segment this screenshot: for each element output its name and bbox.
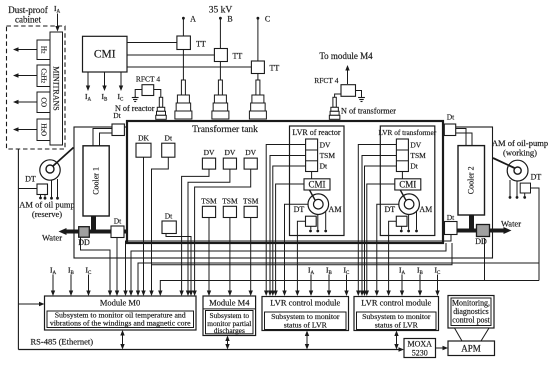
MINITRANS unit [50, 32, 63, 145]
wire TSM1 to M4 [207, 218, 211, 297]
oil pump AM (working) [493, 158, 528, 181]
svg-text:LVR control module: LVR control module [361, 298, 431, 308]
sensor DK [136, 134, 151, 158]
sensor Dt (cooler1 top) [112, 111, 124, 136]
wire cells to CMI [311, 172, 313, 179]
svg-text:TSM: TSM [410, 151, 426, 160]
svg-text:Dt: Dt [165, 134, 173, 143]
svg-text:CMI: CMI [308, 180, 325, 190]
svg-text:CO: CO [40, 97, 48, 107]
wire phase C [257, 20, 259, 81]
svg-text:DV: DV [224, 148, 235, 157]
wire RFCT to ground [135, 90, 142, 97]
monitoring diagnostics control post [448, 296, 494, 329]
transformer tank [127, 121, 443, 243]
AM of oil pump label [19, 200, 75, 220]
bus link LVR1 [305, 331, 309, 350]
CMI U1 (monitor of currents) [83, 36, 128, 72]
svg-text:Module M4: Module M4 [209, 297, 250, 307]
sensor DT box [306, 216, 317, 226]
sensor Dt (mid) [162, 212, 176, 234]
svg-text:Dt: Dt [165, 212, 173, 221]
svg-text:DK: DK [138, 134, 149, 143]
wire cooler2 to Dt [456, 129, 466, 146]
svg-text:LVR of transformer: LVR of transformer [378, 128, 436, 137]
svg-text:Dt: Dt [447, 113, 455, 122]
module M0 subsystem box [47, 311, 194, 328]
svg-text:DD: DD [475, 237, 487, 246]
phase A node [182, 15, 196, 24]
CMI output current arrow IA [86, 72, 90, 91]
svg-text:Water: Water [42, 233, 62, 243]
svg-text:DD: DD [78, 238, 90, 247]
LVR control module 2 [354, 297, 439, 331]
svg-text:N of reactor: N of reactor [115, 104, 155, 113]
current arrow IC [435, 275, 439, 297]
svg-text:TSM: TSM [320, 151, 336, 160]
svg-text:status of LVR: status of LVR [375, 320, 419, 329]
wires to dots [400, 212, 418, 233]
svg-text:RFCT 4: RFCT 4 [314, 76, 338, 85]
pipe cooler2 down [469, 215, 474, 231]
phase B node [219, 15, 233, 24]
wire CMI to TT2 [127, 54, 215, 56]
sensor Dt (top) [162, 134, 175, 158]
svg-text:TSM: TSM [222, 196, 238, 205]
wire Dt to M0 [149, 157, 168, 296]
bus link M0 [120, 330, 124, 350]
wire cooler1 to Dt [93, 129, 112, 146]
sensor TSM2 [222, 196, 238, 217]
gas cell C2H2 [37, 65, 50, 87]
wire pump sensors (working) [509, 180, 526, 199]
wire LVR DT out [295, 221, 305, 296]
LVR drive motor AM [308, 190, 329, 215]
current arrow IC [86, 275, 90, 297]
current transformer TT phase B [214, 49, 242, 62]
water outlet arrow (left) [59, 228, 67, 235]
svg-text:Dust-proof: Dust-proof [8, 5, 48, 15]
water outlet arrow (right) [504, 227, 512, 234]
wire TSM2 to M4 [228, 218, 232, 297]
wire LVR CMI out [365, 184, 395, 296]
wire C2H2 cell output [13, 73, 37, 77]
svg-text:Transformer tank: Transformer tank [192, 124, 258, 135]
svg-text:TT: TT [270, 64, 280, 73]
wire DV2 to M0 [186, 169, 230, 296]
svg-text:AM of oil-pump: AM of oil-pump [492, 138, 548, 148]
svg-text:DV: DV [410, 141, 421, 150]
flow sensor DD (left) [78, 227, 90, 247]
svg-text:A: A [190, 15, 196, 24]
wire LVR DT out [386, 221, 396, 296]
svg-text:(working): (working) [503, 148, 537, 158]
pipe cooler1 down [91, 216, 96, 232]
svg-text:DT: DT [531, 173, 542, 182]
pipe water left [64, 230, 128, 234]
svg-text:Cooler 2: Cooler 2 [467, 166, 476, 194]
wire RFCT to bushing [154, 90, 161, 98]
RS-485 bus [18, 347, 404, 351]
oil/cooling assembly enclosure [74, 127, 493, 258]
gas cell CO [37, 92, 50, 113]
wire sensor run A to M0 [129, 243, 446, 296]
svg-text:CMI: CMI [94, 49, 116, 61]
svg-text:TSM: TSM [201, 196, 217, 205]
svg-text:(reserve): (reserve) [32, 209, 62, 219]
wire H2O cell output [13, 127, 37, 131]
wire Ia into MINITRANS [55, 14, 59, 32]
wire phase A [182, 20, 184, 81]
phase C node [257, 15, 271, 24]
bushing phase A [175, 80, 192, 119]
wire DK to M0 [141, 157, 145, 296]
svg-text:Module M0: Module M0 [100, 297, 140, 307]
CMI output current arrow IB [102, 72, 106, 91]
svg-text:Dt: Dt [320, 162, 328, 171]
svg-text:TT: TT [196, 40, 206, 49]
gas cell H2O [37, 119, 50, 141]
current transformer TT phase C [251, 61, 279, 74]
svg-text:cabinet: cabinet [15, 15, 41, 25]
wire y280 extension [485, 263, 540, 281]
bushing N of reactor [156, 97, 167, 119]
wire MOXA to APM [436, 346, 449, 350]
svg-text:APM: APM [461, 344, 481, 354]
svg-text:TT: TT [233, 52, 243, 61]
AM of oil-pump working label [492, 138, 548, 158]
wire TSM3 to M4 [249, 218, 253, 297]
svg-text:LVR of reactor: LVR of reactor [292, 128, 340, 137]
svg-text:AM: AM [329, 205, 342, 214]
cooler 2 [458, 146, 485, 215]
svg-text:Cooler 1: Cooler 1 [92, 167, 101, 195]
wire CMI to TT1 [127, 42, 177, 44]
module M4 [203, 296, 256, 336]
svg-text:DT: DT [384, 205, 395, 214]
current arrow IB [327, 275, 331, 297]
wire LVR cell out [356, 145, 396, 297]
wire LVR motor out [375, 204, 399, 296]
svg-text:DV: DV [245, 148, 256, 157]
arrow to module M4 [345, 65, 349, 84]
svg-text:TSM: TSM [243, 196, 259, 205]
wire DD-left to M0 [81, 237, 113, 296]
wire LVR CMI out [273, 184, 304, 296]
svg-text:RFCT 4: RFCT 4 [136, 75, 160, 84]
svg-text:LVR control module: LVR control module [270, 298, 340, 308]
current arrow IB [418, 275, 422, 297]
ground (reactor RFCT) [132, 96, 139, 102]
svg-text:Dt: Dt [113, 111, 121, 120]
svg-text:DV: DV [320, 141, 331, 150]
svg-text:RS-485 (Ethernet): RS-485 (Ethernet) [31, 337, 94, 347]
sensor Dt (pipe right) [445, 213, 458, 235]
wires to dots [309, 212, 327, 233]
wire LVR cell out [360, 156, 397, 297]
sensor DV2 [223, 148, 236, 169]
sensor TSM3 [243, 196, 259, 217]
current arrow IA [51, 275, 55, 297]
svg-text:C: C [265, 15, 270, 24]
bus link M4 [225, 336, 229, 350]
bushing phase B [212, 80, 229, 119]
wire CMI to TT3 [127, 66, 251, 68]
current arrow IA [309, 275, 313, 297]
sensor Dt (pipe left) [111, 217, 124, 238]
wire DD-right to M0 [158, 238, 484, 296]
svg-text:DT: DT [25, 175, 36, 184]
bus link LVR2 [394, 331, 398, 350]
wire DV3 to M0 [192, 169, 250, 296]
wire sensor run B join [152, 243, 453, 265]
current arrow IA [400, 275, 404, 297]
LVR control module 1 subsystem box [265, 312, 347, 330]
svg-text:Dt: Dt [114, 217, 122, 226]
wire DV1 to M0 [179, 169, 209, 296]
svg-text:AM of oil pump: AM of oil pump [19, 200, 75, 210]
CMI output current arrow IC [119, 72, 123, 91]
svg-text:control post: control post [452, 316, 490, 325]
svg-text:discharges: discharges [214, 326, 245, 335]
bushing phase C [249, 80, 266, 119]
wire cooler1 to Dt 2 [100, 133, 113, 146]
CMI of LVR [304, 179, 330, 190]
svg-text:N of transformer: N of transformer [341, 107, 396, 116]
wire cells to CMI [401, 172, 403, 179]
svg-text:To module M4: To module M4 [319, 51, 373, 61]
sensor DT box (reserve pump) [37, 184, 48, 195]
wire DT reserve to left line [18, 188, 37, 190]
LVR control module 2 subsystem box [357, 312, 437, 330]
monitor stand [455, 328, 490, 341]
sensor TSM1 [201, 196, 217, 217]
wire LVR cell out [362, 166, 396, 296]
svg-text:vibrations of the windings and: vibrations of the windings and magnetic … [50, 319, 191, 328]
svg-text:DV: DV [204, 148, 215, 157]
RFCT 4 (transformer) [341, 85, 356, 97]
cooler 1 [83, 146, 109, 216]
wire cooler2 to Dt 2 [456, 133, 472, 146]
wire cabinet to module M0 [18, 149, 44, 350]
wire Dt mid jog to M0 [166, 234, 193, 297]
svg-text:DT: DT [294, 205, 305, 214]
svg-text:Dt: Dt [447, 213, 455, 222]
svg-text:Water: Water [501, 219, 521, 229]
svg-text:B: B [227, 15, 232, 24]
module M0 [45, 296, 197, 330]
svg-text:Dt: Dt [410, 162, 418, 171]
wire DT-pump-right to M0 [136, 188, 539, 296]
module M4 subsystem box [203, 309, 256, 335]
wire CO cell output [13, 100, 37, 104]
wire Dt-pipe-right to M0 [123, 235, 451, 297]
APM workstation [448, 341, 495, 356]
bushing N of transformer [329, 97, 340, 119]
sensor Dt (cooler2 top) [444, 113, 455, 136]
current arrow IB [69, 275, 73, 297]
svg-text:status of LVR: status of LVR [284, 320, 328, 329]
LVR box: LVR of transformer [380, 126, 435, 236]
gas cell H2 [37, 40, 50, 60]
LVR sensor stack DV/TSM/Dt [396, 139, 426, 172]
wire RFCT to bushing (transformer) [335, 94, 341, 97]
svg-text:MINITRANS: MINITRANS [52, 66, 61, 110]
svg-text:CMI: CMI [399, 180, 416, 190]
current transformer TT phase A [177, 36, 206, 50]
wire RFCT to ground (transformer) [356, 91, 362, 97]
LVR sensor stack DV/TSM/Dt [306, 139, 336, 172]
wire H2 cell output [13, 47, 37, 51]
svg-text:AM: AM [419, 205, 432, 214]
wire LVR motor out [282, 204, 308, 296]
oil pump AM (reserve) [40, 148, 74, 181]
ground (transformer RFCT) [358, 96, 365, 102]
MOXA 5230 converter [404, 339, 436, 358]
wire LVR cell out [271, 166, 306, 296]
wire pump sensors (reserve) [39, 179, 59, 200]
LVR control module 1 [262, 297, 349, 331]
sensor DT box [396, 216, 407, 226]
dust-proof cabinet (dashed) [7, 26, 66, 149]
sensor DV3 [244, 148, 257, 169]
flow sensor DD (right) [475, 225, 489, 247]
sensor DT box (working pump) [520, 183, 530, 193]
svg-text:MOXA: MOXA [407, 340, 432, 349]
LVR drive motor AM [399, 190, 420, 215]
wire LVR cell out [268, 156, 306, 297]
dust-proof cabinet label [8, 5, 48, 25]
wire LVR cell out [264, 145, 306, 297]
pipe water right [443, 229, 504, 233]
wire Dt-pipe-left to M0 [115, 238, 119, 297]
sensor DV1 [202, 148, 215, 169]
RFCT 4 (reactor) [142, 85, 154, 96]
LVR box: LVR of reactor [290, 126, 345, 236]
current arrow IC [344, 275, 348, 297]
CMI of LVR [395, 179, 421, 190]
wire phase B [219, 20, 221, 81]
svg-text:5230: 5230 [412, 348, 428, 357]
